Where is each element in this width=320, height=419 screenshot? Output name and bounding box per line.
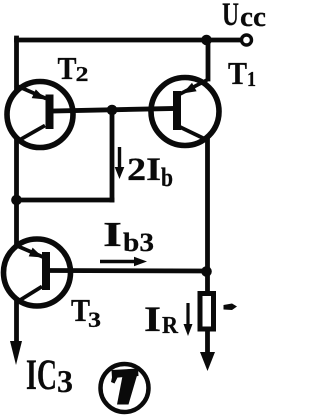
svg-text:b3: b3 — [123, 228, 154, 257]
wire node A down to T3 emitter — [14, 200, 19, 244]
wire T1 emitter up to rail — [206, 40, 211, 79]
figure number 7 in circle — [101, 364, 149, 412]
svg-text:3: 3 — [88, 307, 101, 332]
junction node A (left, 2Ib join) — [11, 195, 22, 206]
svg-text:R: R — [162, 313, 179, 339]
terminal Ucc open circle — [242, 35, 252, 45]
svg-text:IC: IC — [26, 352, 57, 399]
svg-text:T: T — [58, 50, 77, 86]
junction node B (T3 base / T1 collector / resistor) — [201, 266, 212, 277]
arrow resistor output down — [200, 352, 215, 371]
wire T3 base to node B — [50, 268, 206, 273]
wire 2Ib horizontal to node A — [16, 198, 112, 203]
resistor R body — [200, 294, 214, 330]
current arrow IR — [184, 303, 193, 336]
current arrow Ib3 — [100, 257, 147, 267]
wire T3 collector down to IC3 arrow — [14, 302, 19, 344]
tick mark right of resistor — [224, 304, 238, 311]
transistor T3 — [4, 239, 71, 306]
wire left vertical from rail to T2 emitter — [14, 38, 19, 88]
svg-text:2: 2 — [76, 62, 89, 86]
transistor T2 — [7, 82, 73, 148]
wire node B to resistor top — [205, 271, 210, 294]
svg-text:I: I — [144, 299, 161, 339]
svg-text:I: I — [103, 215, 122, 254]
junction dot base bus / 2Ib wire — [107, 105, 118, 116]
svg-text:cc: cc — [240, 2, 266, 33]
wire base bus T2 to T1 — [52, 109, 173, 112]
junction dot rail / T1 emitter — [201, 35, 212, 46]
wire top supply rail — [17, 38, 241, 43]
wire T2 collector down to node A — [14, 140, 19, 200]
svg-text:U: U — [222, 0, 239, 33]
wire 2Ib vertical from base bus down — [110, 110, 115, 200]
current arrow 2Ib — [115, 147, 125, 179]
svg-text:1: 1 — [247, 67, 256, 91]
current arrow IC3 output — [10, 341, 22, 365]
wire resistor bottom down — [205, 329, 210, 355]
wire T1 collector down to node B — [205, 139, 210, 271]
svg-text:T: T — [228, 55, 247, 91]
svg-text:2I: 2I — [127, 152, 161, 188]
transistor T1 — [151, 78, 219, 146]
svg-text:3: 3 — [57, 363, 73, 399]
svg-text:b: b — [161, 163, 173, 192]
